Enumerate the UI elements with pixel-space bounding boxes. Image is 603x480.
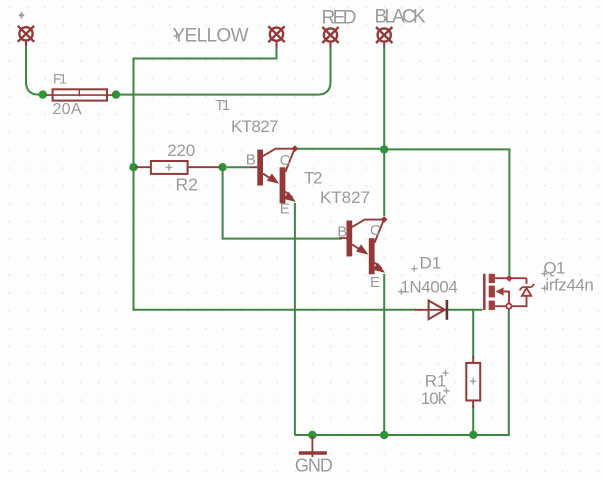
- junction R2 right: [218, 163, 226, 171]
- wire ground bus: [295, 309, 509, 435]
- origin cross irfz44n: [542, 285, 548, 291]
- svg-text:1N4004: 1N4004: [400, 278, 458, 297]
- svg-text:R1: R1: [425, 372, 447, 391]
- junction GND: [308, 431, 316, 439]
- wire T1 collector to BLACK: [297, 148, 384, 150]
- junction fuse left: [39, 90, 47, 98]
- origin cross R1 center: [470, 378, 477, 385]
- origin cross Q1: [541, 271, 547, 277]
- mosfet Q1 irfz44n: [483, 274, 534, 310]
- origin cross YELLOW: [173, 33, 179, 39]
- svg-text:C: C: [280, 152, 291, 169]
- wire T1 emitter down: [294, 203, 296, 435]
- terminal pad +: [18, 26, 34, 46]
- wire node to MOSFET drain: [384, 149, 509, 275]
- svg-text:B: B: [246, 151, 256, 168]
- svg-text:KT827: KT827: [231, 117, 279, 136]
- junction BLACK node: [380, 145, 388, 153]
- transistor T1 KT827: [250, 145, 298, 203]
- svg-text:GND: GND: [295, 456, 333, 476]
- origin cross R2: [166, 164, 173, 171]
- origin cross D1: [411, 266, 417, 272]
- svg-text:F1: F1: [53, 71, 67, 87]
- svg-text:D1: D1: [420, 254, 442, 273]
- svg-text:E: E: [370, 274, 380, 291]
- fuse F1: [46, 89, 113, 100]
- junction R2 left: [129, 163, 137, 171]
- svg-text:T2: T2: [304, 168, 323, 187]
- wire gate net: [134, 167, 417, 310]
- svg-text:BLACK: BLACK: [375, 7, 426, 28]
- wire + terminal to fuse: [26, 41, 41, 95]
- origin cross R1 label: [442, 370, 448, 376]
- svg-text:220: 220: [167, 141, 195, 160]
- terminal pad BLACK: [376, 27, 392, 47]
- svg-text:C: C: [370, 222, 381, 239]
- wire fuse to RED curve: [119, 47, 331, 95]
- svg-text:RED: RED: [322, 7, 357, 28]
- svg-text:irfz44n: irfz44n: [545, 276, 594, 295]
- transistor T2 KT827: [339, 216, 387, 274]
- svg-text:B: B: [337, 224, 347, 241]
- svg-text:20A: 20A: [53, 101, 82, 118]
- wire node to T2 base: [223, 167, 342, 238]
- origin cross 10k label: [443, 388, 449, 394]
- svg-text:KT827: KT827: [320, 188, 370, 207]
- wire YELLOW net: [134, 47, 277, 167]
- junction T2 emitter gnd: [380, 431, 388, 439]
- svg-text:YELLOW: YELLOW: [173, 26, 249, 47]
- svg-text:E: E: [280, 200, 290, 217]
- diode D1 1N4004: [415, 300, 447, 320]
- label + terminal name: [19, 12, 24, 18]
- svg-text:R2: R2: [176, 175, 198, 195]
- terminal pad RED: [322, 27, 338, 47]
- origin cross 1N4004: [398, 289, 404, 295]
- junction R1 gnd: [469, 431, 477, 439]
- terminal pad YELLOW: [268, 26, 284, 47]
- svg-text:T1: T1: [215, 97, 230, 114]
- wire diode to gate: [448, 309, 483, 311]
- wire R2 to T1 base: [227, 166, 250, 168]
- wire BLACK net vertical: [383, 47, 385, 216]
- wire R1 top: [472, 310, 474, 358]
- resistor R1: [466, 356, 480, 408]
- ground symbol: [299, 436, 327, 457]
- resistor R2: [135, 161, 220, 174]
- svg-text:10k: 10k: [421, 389, 447, 408]
- wire R1 bottom: [472, 405, 474, 431]
- wire T2 emitter down: [383, 274, 385, 435]
- junction fuse right: [112, 90, 120, 98]
